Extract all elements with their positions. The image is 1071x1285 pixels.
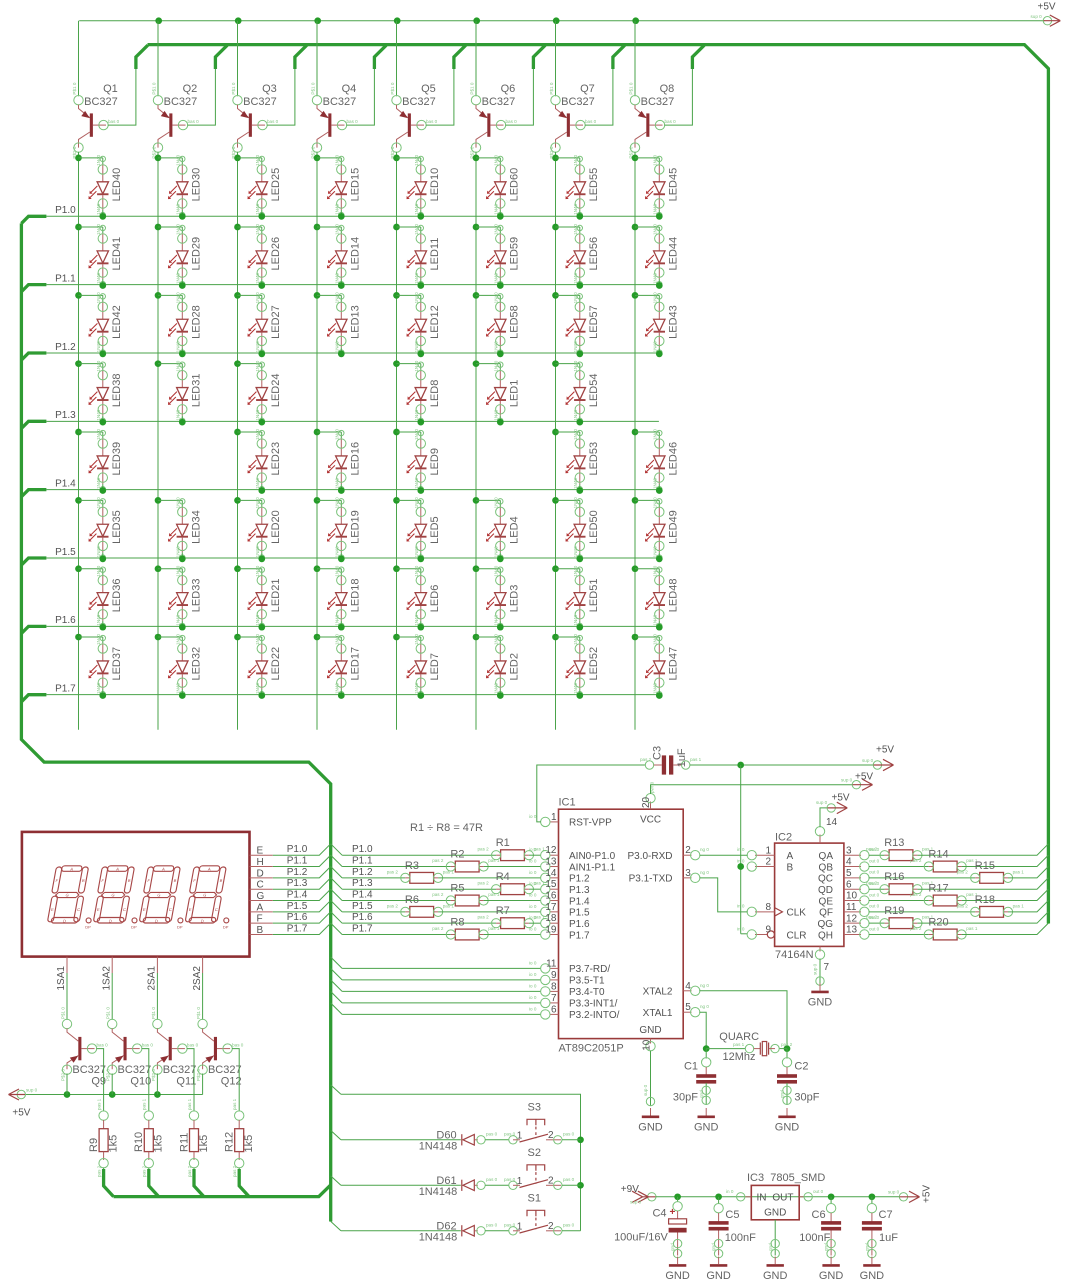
svg-text:30pF: 30pF	[794, 1092, 819, 1104]
IC1 pin 1 RST-VPP	[550, 821, 559, 823]
svg-text:P1.4: P1.4	[55, 478, 76, 489]
bus stub (thick)	[454, 45, 466, 69]
IC1 pin 16 P1.4	[550, 900, 559, 902]
svg-text:LED3: LED3	[509, 585, 521, 613]
junction	[497, 624, 504, 631]
svg-text:R2: R2	[450, 849, 464, 861]
display pin 2SA1	[156, 957, 158, 973]
svg-text:P1.2: P1.2	[569, 874, 590, 885]
svg-text:LED19: LED19	[350, 510, 362, 544]
diode LED20	[234, 497, 241, 504]
diode LED29	[155, 224, 162, 231]
svg-text:pas 0: pas 0	[563, 1223, 575, 1228]
IC1 pin 12 AIN0-P1.0	[550, 854, 559, 856]
svg-text:R15: R15	[975, 860, 995, 872]
svg-text:LED4: LED4	[509, 516, 521, 544]
junction	[869, 1193, 876, 1200]
bus entry row P1.2 (thick)	[21, 353, 46, 360]
display pin D	[250, 877, 273, 879]
svg-text:P1.7: P1.7	[55, 683, 76, 694]
diode LED35	[75, 497, 82, 504]
resistor R1 47R	[492, 850, 534, 861]
svg-text:LED20: LED20	[270, 510, 282, 544]
svg-text:8: 8	[765, 902, 771, 913]
svg-text:io 0: io 0	[529, 859, 537, 864]
junction	[576, 350, 583, 357]
svg-text:R16: R16	[884, 871, 904, 883]
svg-text:LED60: LED60	[509, 168, 521, 202]
junction	[179, 692, 186, 699]
transistor Q4 BC327 (PNP)	[311, 82, 359, 158]
junction	[235, 17, 242, 24]
svg-text:C: C	[257, 880, 264, 891]
svg-text:B: B	[257, 925, 264, 936]
wire to R5	[342, 900, 451, 902]
IC2 pin 2 B	[755, 866, 775, 868]
wire collector to LED column	[316, 152, 318, 158]
diode D62 1N4148	[461, 1225, 463, 1236]
wire XTAL1 to crystal	[699, 1012, 706, 1048]
svg-text:BC327: BC327	[641, 96, 675, 108]
diode LED37	[75, 634, 82, 641]
display pin F	[250, 922, 273, 924]
junction	[828, 1193, 835, 1200]
svg-text:AIN1-P1.1: AIN1-P1.1	[569, 862, 616, 873]
svg-text:io 0: io 0	[529, 960, 537, 965]
svg-text:pas 1: pas 1	[1013, 869, 1025, 874]
svg-text:P3.7-RD/: P3.7-RD/	[569, 964, 610, 975]
diode LED44	[632, 224, 639, 231]
IC1 pin 7 P3.3-INT1/	[550, 1002, 559, 1004]
svg-text:out 0: out 0	[869, 858, 880, 863]
transistor Q6 BC327 (PNP)	[470, 82, 518, 158]
svg-text:3: 3	[685, 868, 691, 879]
bus entry P3 net	[331, 969, 342, 980]
wire to IC1	[342, 990, 541, 992]
wire collector to LED column	[634, 152, 636, 158]
svg-text:LED39: LED39	[111, 442, 123, 476]
diode LED3	[473, 565, 480, 572]
wire +9V rail	[656, 1196, 899, 1198]
svg-text:LED36: LED36	[111, 579, 123, 613]
diode LED26	[234, 224, 241, 231]
resistor R9 1k5	[99, 1111, 108, 1120]
capacitor C2 30pF	[777, 1074, 797, 1083]
svg-text:pas 2: pas 2	[97, 1165, 102, 1177]
diode LED34	[155, 497, 162, 504]
supply +5V (b)	[852, 781, 860, 789]
resistor R15	[971, 872, 1013, 883]
wire to diode D60	[341, 1139, 461, 1141]
svg-text:LED14: LED14	[350, 237, 362, 271]
svg-text:io 0: io 0	[529, 904, 537, 909]
display pin B	[250, 934, 273, 936]
svg-text:BC327: BC327	[243, 96, 277, 108]
wire	[786, 1083, 788, 1105]
svg-text:pas 1: pas 1	[488, 926, 500, 931]
svg-text:AIN0-P1.0: AIN0-P1.0	[569, 851, 616, 862]
svg-text:io 0: io 0	[529, 814, 537, 819]
wire base to resistor	[96, 1049, 103, 1112]
junction	[576, 692, 583, 699]
svg-text:XTAL1: XTAL1	[643, 1008, 673, 1019]
svg-text:1k5: 1k5	[153, 1135, 165, 1153]
svg-text:12: 12	[545, 845, 557, 856]
diode LED5	[393, 497, 400, 504]
svg-text:3: 3	[846, 845, 852, 856]
transistor Q12 BC327 (PNP)	[196, 1007, 244, 1081]
resistor R20	[924, 929, 966, 940]
svg-text:P1.6: P1.6	[287, 912, 308, 923]
IC1 pin 15 P1.3	[550, 888, 559, 890]
svg-text:sup 0: sup 0	[643, 1084, 648, 1096]
wire P1.7 to bus	[273, 923, 331, 934]
svg-text:OUT: OUT	[772, 1193, 793, 1204]
svg-text:LED48: LED48	[668, 579, 680, 613]
wire QA chain	[869, 854, 885, 856]
IC2 pin 8 CLK	[755, 911, 775, 913]
svg-text:+5V: +5V	[855, 772, 873, 783]
svg-text:sup 0: sup 0	[813, 963, 818, 975]
svg-text:30pF: 30pF	[673, 1092, 698, 1104]
wire to IC1	[484, 866, 541, 868]
wire to R4	[342, 888, 496, 890]
diode LED50	[552, 497, 559, 504]
transistor Q10 BC327 (PNP)	[106, 1007, 154, 1081]
svg-text:LED7: LED7	[429, 653, 441, 681]
svg-text:gnd: gnd	[711, 1243, 716, 1251]
junction	[258, 487, 265, 494]
svg-text:LED21: LED21	[270, 579, 282, 613]
diode LED55	[552, 155, 559, 162]
svg-text:R1: R1	[496, 837, 510, 849]
svg-text:P1.5: P1.5	[55, 547, 76, 558]
junction	[417, 282, 424, 289]
svg-text:DP: DP	[177, 925, 183, 930]
svg-text:P1.6: P1.6	[352, 912, 373, 923]
svg-text:14: 14	[826, 817, 838, 828]
diode LED52	[552, 634, 559, 641]
svg-text:ng 0: ng 0	[700, 870, 709, 875]
capacitor C6 100nF	[830, 1197, 832, 1204]
bus entry P1.3	[331, 878, 342, 889]
svg-text:QC: QC	[818, 874, 833, 885]
svg-text:LED16: LED16	[350, 442, 362, 476]
svg-text:Q6: Q6	[501, 83, 516, 95]
IC1 pin 20 VCC	[650, 802, 652, 810]
junction	[417, 624, 424, 631]
svg-text:R5: R5	[450, 883, 464, 895]
capacitor C7 1uF	[871, 1197, 873, 1204]
junction	[417, 350, 424, 357]
svg-text:io 0: io 0	[529, 972, 537, 977]
wire row P1.6	[46, 625, 659, 627]
svg-text:pas 0: pas 0	[486, 1132, 498, 1137]
svg-text:pas 0: pas 0	[563, 1132, 575, 1137]
wire emitter column	[396, 21, 398, 97]
bus entry row P1.3 (thick)	[21, 421, 46, 428]
junction	[258, 213, 265, 220]
svg-text:19: 19	[545, 925, 557, 936]
svg-text:+: +	[670, 1207, 676, 1218]
wire base to bus	[505, 69, 533, 125]
diode LED28	[155, 292, 162, 299]
svg-text:Q7: Q7	[580, 83, 595, 95]
svg-text:+9V: +9V	[621, 1184, 639, 1195]
svg-text:R18: R18	[975, 894, 995, 906]
svg-text:P1.1: P1.1	[287, 856, 308, 867]
wire diode to switch	[485, 1139, 509, 1141]
svg-text:R8: R8	[450, 917, 464, 929]
svg-text:P3.5-T1: P3.5-T1	[569, 976, 605, 987]
wire RST to C3	[537, 765, 646, 822]
IC1 pin 10 GND	[650, 1039, 652, 1044]
supply +5V top right	[1043, 17, 1051, 25]
diode LED22	[234, 634, 241, 641]
wire row P1.0	[46, 215, 659, 217]
svg-text:5: 5	[685, 1002, 691, 1013]
IC2 pin 12 QG	[844, 922, 861, 924]
svg-text:1N4148: 1N4148	[419, 1232, 458, 1244]
svg-text:gnd: gnd	[824, 1243, 829, 1251]
svg-text:LED24: LED24	[270, 374, 282, 408]
diode LED33	[155, 565, 162, 572]
wire	[706, 1048, 745, 1050]
svg-text:LED8: LED8	[429, 380, 441, 408]
IC2 pin 5 QC	[844, 877, 861, 879]
svg-text:LED17: LED17	[350, 647, 362, 681]
diode LED38	[75, 360, 82, 367]
display pin C	[250, 888, 273, 890]
svg-text:LED25: LED25	[270, 168, 282, 202]
diode LED25	[234, 155, 241, 162]
svg-text:LED38: LED38	[111, 374, 123, 408]
wire to IC1	[529, 888, 541, 890]
bus stub (thick)	[136, 45, 148, 69]
svg-text:pas 1: pas 1	[97, 1098, 102, 1110]
svg-text:LED53: LED53	[588, 442, 600, 476]
svg-text:2: 2	[548, 1130, 554, 1141]
wire emitter	[66, 1074, 68, 1095]
svg-text:LED50: LED50	[588, 510, 600, 544]
svg-text:LED56: LED56	[588, 237, 600, 271]
wire to bus (thick)	[238, 1168, 240, 1169]
svg-text:pas 2: pas 2	[387, 903, 399, 908]
svg-text:sup 0: sup 0	[816, 800, 828, 805]
resistor R3 47R	[401, 872, 443, 883]
wire to R1	[342, 854, 496, 856]
svg-text:gnd: gnd	[670, 1243, 675, 1251]
svg-text:P3.2-INTO/: P3.2-INTO/	[569, 1010, 620, 1021]
svg-text:6: 6	[846, 879, 852, 890]
svg-text:LED55: LED55	[588, 168, 600, 202]
wire pin2 to IC2-A	[700, 854, 748, 856]
digit 3	[138, 866, 181, 923]
junction	[417, 692, 424, 699]
svg-text:1uF: 1uF	[879, 1232, 898, 1244]
display pin 1SA2	[111, 957, 113, 973]
svg-text:A: A	[787, 851, 794, 862]
IC2 pin 14 VCC	[819, 835, 821, 844]
svg-text:GND: GND	[764, 1208, 786, 1219]
IC2 74164N shift register	[775, 843, 844, 946]
wire collector to LED column	[78, 152, 80, 158]
svg-text:CLK: CLK	[787, 908, 807, 919]
wire collector to LED column	[157, 152, 159, 158]
wire to R7	[342, 922, 496, 924]
svg-text:LED40: LED40	[111, 168, 123, 202]
diode LED56	[552, 224, 559, 231]
svg-text:H: H	[257, 857, 264, 868]
wire to C1	[705, 1049, 707, 1059]
resistor R13	[880, 850, 922, 861]
diode LED49	[632, 497, 639, 504]
svg-text:2: 2	[765, 857, 771, 868]
junction	[338, 282, 345, 289]
svg-text:CLR: CLR	[787, 930, 807, 941]
svg-text:P1.1: P1.1	[352, 856, 373, 867]
svg-text:BC327: BC327	[164, 96, 198, 108]
svg-text:F: F	[257, 914, 263, 925]
svg-text:1k5: 1k5	[107, 1135, 119, 1153]
svg-text:2SA1: 2SA1	[147, 966, 158, 991]
IC1 pin 17 P1.5	[550, 911, 559, 913]
svg-text:QF: QF	[819, 908, 833, 919]
svg-text:P1.2: P1.2	[352, 867, 373, 878]
svg-text:P3.4-T0: P3.4-T0	[569, 987, 605, 998]
wire diode to switch	[485, 1184, 509, 1186]
wire P1.2 to bus	[273, 866, 331, 877]
svg-text:gnd: gnd	[780, 1090, 785, 1098]
svg-text:P1.5: P1.5	[352, 901, 373, 912]
supply +9V	[648, 1193, 656, 1201]
bus entry switch net	[331, 1176, 341, 1185]
svg-text:R20: R20	[928, 917, 948, 929]
svg-text:2: 2	[548, 1176, 554, 1187]
wire row P1.7	[46, 694, 659, 696]
junction	[258, 350, 265, 357]
svg-text:out 0: out 0	[869, 926, 880, 931]
svg-text:16: 16	[545, 891, 557, 902]
junction	[656, 692, 663, 699]
IC2 pin 3 QA	[844, 854, 861, 856]
display pin H	[250, 866, 273, 868]
svg-text:QB: QB	[819, 862, 834, 873]
svg-text:ng 0: ng 0	[700, 847, 709, 852]
svg-text:pas 1: pas 1	[488, 858, 500, 863]
svg-text:pas 0: pas 0	[486, 1177, 498, 1182]
junction	[656, 282, 663, 289]
svg-text:LED29: LED29	[191, 237, 203, 271]
svg-text:7: 7	[551, 993, 557, 1004]
svg-text:pas 0: pas 0	[563, 1177, 575, 1182]
svg-text:2SA2: 2SA2	[192, 966, 203, 991]
wire QA chain	[869, 900, 929, 902]
svg-text:io 0: io 0	[529, 915, 537, 920]
svg-text:BC327: BC327	[208, 1064, 242, 1076]
svg-text:S1: S1	[528, 1193, 541, 1205]
svg-text:10: 10	[642, 1039, 653, 1051]
junction	[394, 17, 401, 24]
wire to IC1	[484, 900, 541, 902]
IC1 pin 18 P1.6	[550, 922, 559, 924]
wire B/CLR net	[740, 765, 742, 934]
resistor R5 47R	[446, 895, 488, 906]
svg-text:LED49: LED49	[668, 510, 680, 544]
svg-text:BC327: BC327	[72, 1064, 106, 1076]
svg-text:LED30: LED30	[191, 168, 203, 202]
svg-text:io 0: io 0	[529, 927, 537, 932]
diode LED7	[393, 634, 400, 641]
svg-text:R4: R4	[496, 871, 510, 883]
svg-text:15: 15	[545, 879, 557, 890]
supply +5V left	[17, 1090, 25, 1098]
wire emitter	[156, 1074, 158, 1095]
svg-text:C2: C2	[794, 1061, 808, 1073]
svg-text:LED13: LED13	[350, 305, 362, 339]
svg-text:R3: R3	[405, 860, 419, 872]
wire QA chain	[869, 888, 885, 890]
svg-text:pas 2: pas 2	[781, 1042, 793, 1047]
wire to base bus	[917, 878, 1048, 889]
diode LED17	[314, 634, 321, 641]
bus stub (thick)	[533, 45, 545, 69]
junction	[338, 213, 345, 220]
junction	[338, 487, 345, 494]
diode LED27	[234, 292, 241, 299]
wire emitter column	[237, 21, 239, 97]
svg-text:pas 1: pas 1	[690, 757, 702, 762]
bus stub (thick)	[295, 45, 307, 69]
svg-text:io 0: io 0	[529, 870, 537, 875]
svg-text:11: 11	[846, 902, 857, 913]
transistor Q11 BC327 (PNP)	[151, 1007, 199, 1081]
svg-text:io 0: io 0	[529, 893, 537, 898]
junction	[656, 487, 663, 494]
svg-text:17: 17	[545, 902, 557, 913]
svg-text:pas 2: pas 2	[957, 869, 969, 874]
svg-text:gnd: gnd	[699, 1090, 704, 1098]
svg-text:LED2: LED2	[509, 653, 521, 681]
svg-text:12: 12	[846, 913, 858, 924]
transistor Q2 BC327 (PNP)	[152, 82, 200, 158]
svg-text:pas 2: pas 2	[432, 926, 444, 931]
junction	[656, 624, 663, 631]
svg-text:DP: DP	[85, 925, 91, 930]
svg-text:R12: R12	[224, 1132, 236, 1152]
diode LED24	[234, 360, 241, 367]
svg-text:LED28: LED28	[191, 305, 203, 339]
junction	[314, 17, 321, 24]
junction	[179, 213, 186, 220]
capacitor C3 1uF	[645, 761, 653, 769]
svg-text:1uF: 1uF	[676, 748, 688, 767]
IC3 pin GND	[774, 1220, 776, 1256]
svg-text:1N4148: 1N4148	[419, 1186, 458, 1198]
wire to base bus	[962, 923, 1049, 934]
svg-text:LED12: LED12	[429, 305, 441, 339]
junction	[417, 556, 424, 563]
IC1 pin 2 P3.0-RXD	[683, 854, 691, 856]
diode LED8	[393, 360, 400, 367]
wire to IC1	[438, 877, 541, 879]
diode LED57	[552, 292, 559, 299]
IC2 pin 10 QE	[844, 900, 861, 902]
display pin 1SA1	[66, 957, 68, 973]
IC1 AT89C2051P microcontroller	[559, 809, 684, 1038]
svg-text:9: 9	[765, 925, 771, 936]
wire row P1.5	[46, 557, 659, 559]
